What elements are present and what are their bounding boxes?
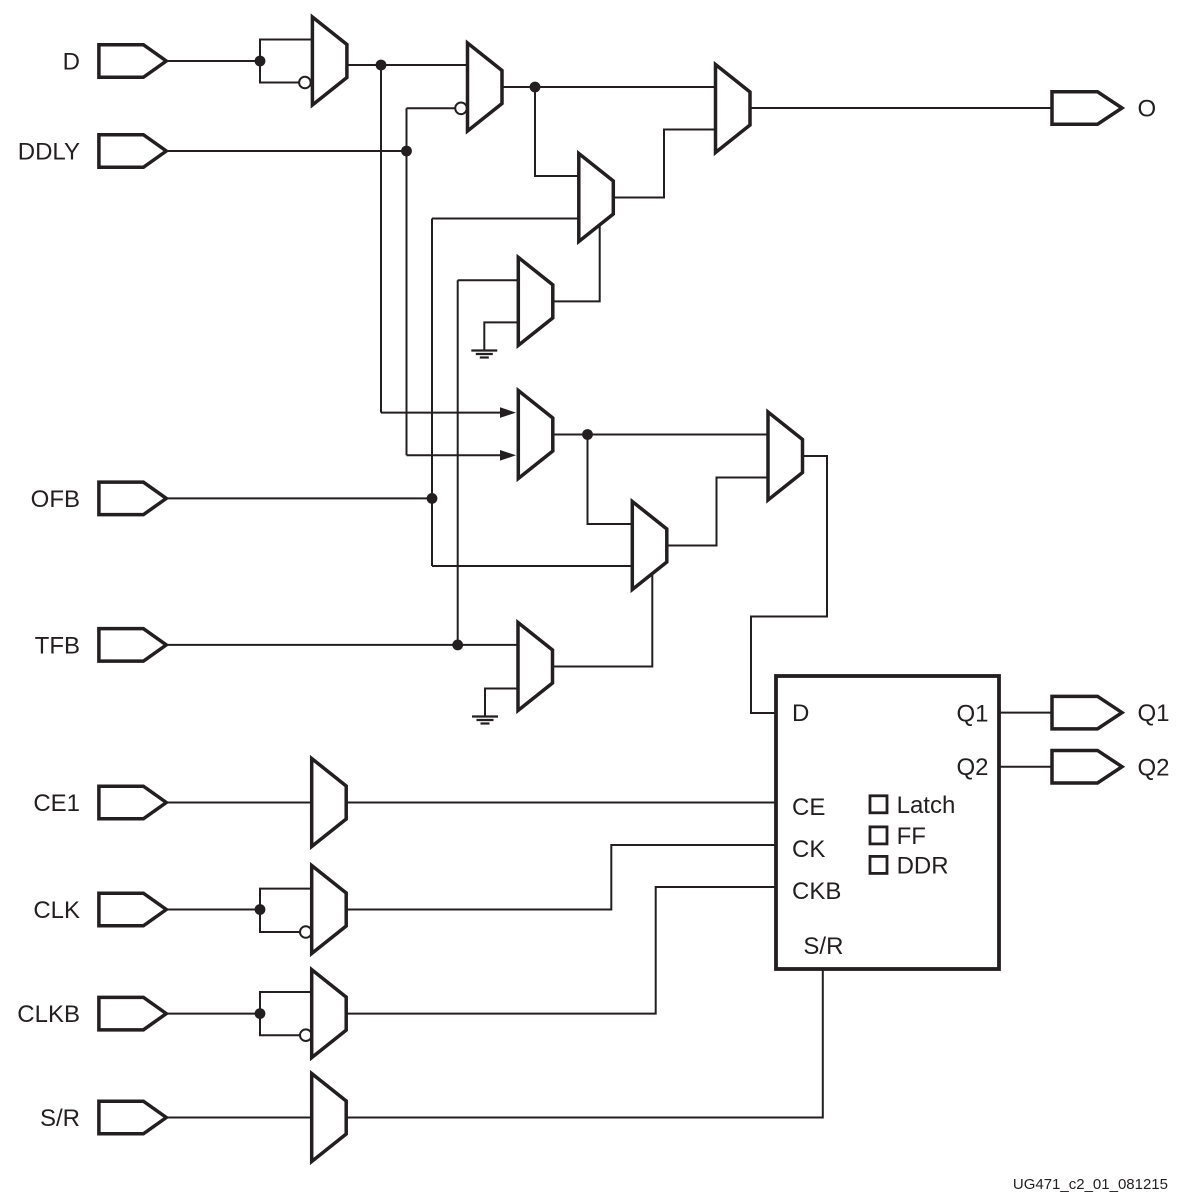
node DDLY junction <box>401 146 412 157</box>
mux M11 <box>312 866 347 954</box>
svg-text:Q2: Q2 <box>957 754 989 781</box>
wire DDLY vertical riser <box>406 108 408 455</box>
inverter bubble on mux M1 input <box>299 77 311 89</box>
wire CE1 to mux M10 <box>166 802 312 804</box>
wire S/R to mux M13 <box>166 1117 312 1119</box>
wire mux M6 output to mux M8 top input <box>553 434 768 436</box>
svg-text:D: D <box>63 49 80 76</box>
node CLKB junction <box>255 1008 266 1019</box>
output port O <box>1052 92 1122 125</box>
wire TFB to mux M9 input <box>166 644 518 646</box>
svg-text:DDR: DDR <box>897 853 949 880</box>
svg-text:Q2: Q2 <box>1138 754 1170 781</box>
checkbox DDR <box>870 856 887 873</box>
wire D inverted input of mux M1 <box>260 61 299 83</box>
inverter bubble on mux M12 input <box>300 1029 312 1041</box>
ground under mux M5 <box>471 351 497 358</box>
wire OFB vertical riser <box>431 219 433 567</box>
wire CLK inverted input of mux M11 <box>260 910 300 933</box>
input port OFB <box>99 482 166 515</box>
wire CLKB true input of mux M12 <box>260 992 312 1014</box>
mux M2 <box>468 43 503 131</box>
wire into mux M6 bottom input <box>407 454 501 456</box>
wire mux M2 output to mux M4 top input <box>535 87 579 176</box>
wire CLKB to junction <box>166 1013 260 1015</box>
wire ground to mux M5 bottom input <box>484 322 518 350</box>
checkbox FF <box>870 827 887 844</box>
wire mux M8 output to block D input <box>751 456 827 713</box>
input port CLK <box>99 893 166 926</box>
mux M6 <box>518 391 553 479</box>
wire OFB to mux M7 bottom input <box>432 565 632 567</box>
svg-text:UG471_c2_01_081215: UG471_c2_01_081215 <box>1013 1176 1168 1193</box>
node D junction <box>255 56 266 67</box>
arrowhead mux M6 top input <box>500 407 516 418</box>
wire mux M7 output to mux M8 bottom input <box>667 478 768 546</box>
node CLK junction <box>255 904 266 915</box>
inverter bubble on mux M11 input <box>300 926 312 938</box>
wire mux M5 output to mux M4 select <box>553 226 600 301</box>
input port CE1 <box>99 786 166 819</box>
svg-text:FF: FF <box>897 823 926 850</box>
wire TFB vertical riser <box>457 280 459 645</box>
wire mux M9 output to mux M7 select <box>553 575 653 667</box>
wire ground to mux M9 bottom input <box>485 689 518 717</box>
mux M7 <box>632 502 667 590</box>
latch/FF/DDR block U1 <box>776 676 999 969</box>
input port S/R <box>99 1101 166 1134</box>
node mux M6 output junction <box>582 429 593 440</box>
ground under mux M9 <box>472 717 498 724</box>
node TFB junction <box>452 640 463 651</box>
wire CLK true input of mux M11 <box>260 889 312 910</box>
mux M9 <box>518 623 553 711</box>
wire mux M4 output to mux M3 bottom input <box>613 130 715 198</box>
wire block Q1 to port Q1 <box>999 712 1052 714</box>
wire mux M6 output to mux M7 top input <box>588 435 633 525</box>
arrowhead mux M6 bottom input <box>500 450 516 461</box>
inverter bubble on mux M2 input <box>455 103 467 115</box>
wire to inverted input of mux M2 <box>407 107 456 109</box>
node mux M2 output junction <box>530 82 541 93</box>
wire mux M1 output to mux M2 input <box>347 64 468 66</box>
wire D true input of mux M1 <box>260 40 312 62</box>
wire OFB to junction <box>166 497 432 499</box>
mux M4 <box>579 154 614 242</box>
mux M13 <box>312 1074 347 1162</box>
svg-text:Latch: Latch <box>897 792 956 819</box>
wire block Q2 to port Q2 <box>999 766 1052 768</box>
output port Q1 <box>1052 696 1122 729</box>
svg-text:S/R: S/R <box>40 1105 80 1132</box>
mux M12 <box>312 970 347 1058</box>
svg-text:S/R: S/R <box>803 933 843 960</box>
svg-text:CKB: CKB <box>792 878 841 905</box>
wire CLKB inverted input of mux M12 <box>260 1014 300 1036</box>
svg-text:D: D <box>792 700 809 727</box>
wire OFB to mux M4 bottom input <box>432 218 579 220</box>
svg-text:Q1: Q1 <box>957 700 989 727</box>
mux M3 <box>716 65 751 153</box>
svg-text:OFB: OFB <box>31 486 80 513</box>
node OFB junction <box>427 493 438 504</box>
wire mux M12 output to block CKB input <box>346 887 776 1014</box>
svg-text:CK: CK <box>792 836 825 863</box>
wire mux M11 output to block CK input <box>346 845 776 910</box>
checkbox Latch <box>870 796 887 813</box>
wire DDLY to junction <box>166 150 407 152</box>
svg-text:O: O <box>1138 96 1157 123</box>
wire mux M2 output to mux M3 input <box>502 86 716 88</box>
input port DDLY <box>99 135 166 168</box>
svg-text:CLKB: CLKB <box>17 1001 80 1028</box>
wire mux M3 output to port O <box>750 107 1052 109</box>
wire mux M10 output to block CE input <box>346 802 776 804</box>
node mux M1 output junction <box>376 60 387 71</box>
wire mux M1 output down to mux M6 <box>380 65 382 413</box>
mux M10 <box>312 759 347 847</box>
mux M8 <box>768 412 803 500</box>
output port Q2 <box>1052 750 1122 783</box>
mux M5 <box>518 257 553 345</box>
input port TFB <box>99 629 166 662</box>
mux M1 <box>312 17 347 105</box>
wire CLK to junction <box>166 909 260 911</box>
input port D <box>99 45 166 78</box>
svg-text:TFB: TFB <box>35 633 80 660</box>
wire D to junction <box>166 60 260 62</box>
input port CLKB <box>99 997 166 1030</box>
svg-text:Q1: Q1 <box>1138 700 1170 727</box>
wire into mux M6 top input <box>381 412 500 414</box>
svg-text:CE1: CE1 <box>33 790 80 817</box>
svg-text:CLK: CLK <box>33 897 80 924</box>
wire TFB to mux M5 top input <box>458 279 519 281</box>
wire mux M13 output to block S/R input <box>346 969 823 1118</box>
svg-text:CE: CE <box>792 794 825 821</box>
svg-text:DDLY: DDLY <box>18 139 80 166</box>
